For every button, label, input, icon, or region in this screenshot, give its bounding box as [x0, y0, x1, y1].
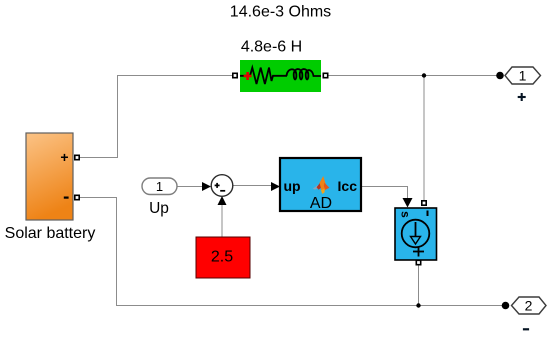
svg-text:AD: AD: [310, 195, 332, 212]
svg-text:2.5: 2.5: [211, 249, 233, 266]
svg-text:Icc: Icc: [338, 178, 358, 194]
svg-text:14.6e-3 Ohms: 14.6e-3 Ohms: [230, 4, 331, 21]
svg-text:+: +: [60, 149, 68, 165]
svg-text:1: 1: [156, 179, 163, 194]
svg-text:2: 2: [525, 298, 533, 314]
svg-text:Up: Up: [149, 200, 169, 217]
svg-text:s: s: [399, 211, 413, 218]
svg-text:Solar battery: Solar battery: [5, 225, 96, 242]
svg-text:up: up: [284, 178, 301, 194]
svg-text:4.8e-6 H: 4.8e-6 H: [241, 39, 302, 56]
svg-text:1: 1: [519, 68, 527, 84]
